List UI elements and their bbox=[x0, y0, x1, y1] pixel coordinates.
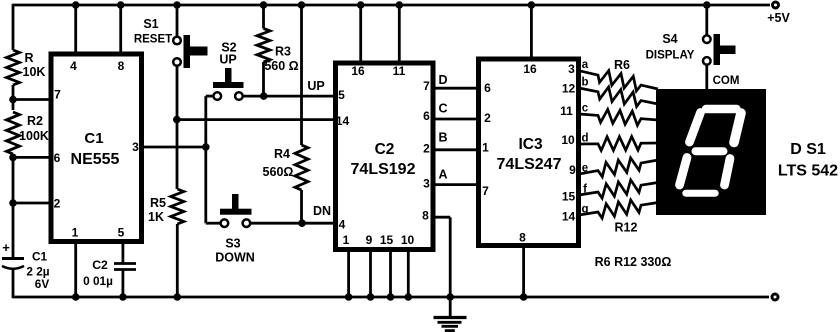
svg-text:DN: DN bbox=[313, 204, 331, 218]
resistor R10 segment e bbox=[579, 158, 658, 177]
node A label bbox=[438, 168, 447, 182]
node R5 ground junction bbox=[174, 293, 182, 301]
svg-text:1: 1 bbox=[343, 233, 350, 247]
node COM label bbox=[713, 75, 740, 87]
wire pole to S3 bbox=[206, 222, 221, 225]
capacitor C2 0.01u bbox=[83, 258, 136, 288]
resistor R 10K bbox=[7, 50, 46, 85]
svg-text:+: + bbox=[2, 240, 10, 255]
node R6-R12 value note bbox=[595, 255, 672, 269]
wire R5 to ground bbox=[176, 224, 179, 297]
svg-text:2: 2 bbox=[423, 142, 430, 156]
svg-text:15: 15 bbox=[562, 190, 576, 204]
node D label bbox=[438, 73, 447, 87]
node pin8 rail junction bbox=[117, 1, 125, 9]
node IC3 pin16 rail junction bbox=[528, 1, 536, 9]
display DS1 LTS542 seven-segment bbox=[656, 89, 766, 215]
svg-text:3: 3 bbox=[568, 62, 575, 76]
svg-text:10K: 10K bbox=[23, 65, 46, 79]
svg-text:D S1: D S1 bbox=[790, 141, 826, 158]
wire R to R2 bbox=[12, 85, 15, 110]
wire IC3 pin8 to ground bbox=[522, 245, 525, 297]
svg-text:1: 1 bbox=[72, 226, 79, 240]
node S1/R5/pin14 junction bbox=[173, 116, 181, 124]
wire data D bbox=[433, 87, 478, 90]
svg-text:C1: C1 bbox=[84, 130, 103, 147]
resistor R11 segment f bbox=[579, 180, 658, 198]
svg-text:10: 10 bbox=[401, 233, 415, 247]
node IC3 pin8 ground junction bbox=[520, 293, 528, 301]
svg-text:4: 4 bbox=[70, 59, 77, 73]
node C2 ground junction bbox=[119, 293, 127, 301]
wire R4 top lead bbox=[300, 4, 303, 145]
net DN label bbox=[313, 204, 331, 218]
node C2 pin1 ground junction bbox=[345, 293, 353, 301]
svg-text:11: 11 bbox=[393, 64, 406, 78]
IC U3 74LS247 decoder IC3 bbox=[479, 59, 579, 246]
svg-text:6: 6 bbox=[484, 81, 491, 95]
svg-text:COM: COM bbox=[713, 75, 740, 87]
node bottom-right terminal bbox=[772, 294, 778, 300]
svg-text:D: D bbox=[438, 73, 447, 87]
svg-text:560 Ω: 560 Ω bbox=[264, 59, 298, 73]
wire UP line bbox=[242, 95, 335, 98]
wire left vertical top lead bbox=[12, 4, 15, 50]
node main ground junction bbox=[446, 293, 454, 301]
node C label bbox=[438, 102, 447, 116]
resistor R3 560 bbox=[257, 29, 299, 74]
svg-text:1: 1 bbox=[482, 141, 489, 155]
node R4/DN junction bbox=[298, 219, 306, 227]
svg-text:R12: R12 bbox=[615, 221, 638, 235]
wire pin 1 to ground bbox=[74, 241, 77, 297]
wire C2 to ground bbox=[122, 270, 125, 298]
svg-text:15: 15 bbox=[380, 233, 394, 247]
resistor R7 segment b bbox=[579, 77, 658, 107]
svg-text:7: 7 bbox=[423, 79, 430, 93]
wire data C bbox=[433, 118, 478, 121]
capacitor C1 2.2u 6V bbox=[2, 240, 50, 291]
node C2 pin16 rail junction bbox=[357, 1, 365, 9]
svg-text:DISPLAY: DISPLAY bbox=[646, 50, 695, 62]
node B label bbox=[438, 131, 447, 145]
svg-text:2: 2 bbox=[484, 111, 491, 125]
node C2 pin11 rail junction bbox=[396, 1, 404, 9]
svg-text:S3: S3 bbox=[225, 237, 240, 251]
node pin6 junction bbox=[9, 154, 17, 162]
resistor R5 1K bbox=[148, 189, 184, 224]
wire S4 top lead bbox=[705, 4, 708, 36]
wire ground bottom rail bbox=[13, 296, 769, 299]
svg-text:14: 14 bbox=[562, 210, 576, 224]
switch S3 DOWN bbox=[215, 194, 255, 265]
wire C1 to bottom rail bbox=[12, 269, 15, 298]
svg-text:a: a bbox=[582, 59, 589, 71]
IC U2 74LS192 counter C2 bbox=[336, 63, 434, 250]
svg-text:c: c bbox=[582, 103, 589, 115]
resistor R8 segment c bbox=[579, 103, 658, 126]
wire pole vertical bbox=[204, 96, 207, 223]
resistor R4 560 bbox=[263, 145, 308, 190]
node S4 rail junction bbox=[703, 1, 711, 9]
svg-text:S4: S4 bbox=[662, 32, 677, 46]
wire pin 8 to rail bbox=[119, 5, 122, 54]
svg-text:7: 7 bbox=[482, 184, 489, 198]
wire COM lead bbox=[705, 65, 708, 91]
svg-text:+5V: +5V bbox=[767, 11, 790, 25]
svg-text:C1: C1 bbox=[32, 250, 48, 264]
wire DN line bbox=[250, 222, 336, 225]
svg-text:R4: R4 bbox=[274, 147, 290, 161]
node R12 label bbox=[615, 221, 638, 235]
svg-text:12: 12 bbox=[562, 82, 576, 96]
svg-text:74LS192: 74LS192 bbox=[351, 161, 416, 178]
wire R2 to C1 bbox=[12, 154, 15, 258]
node C2 pin15 ground junction bbox=[387, 293, 395, 301]
svg-text:9: 9 bbox=[569, 163, 576, 177]
resistor R12 segment g bbox=[579, 200, 658, 218]
svg-text:16: 16 bbox=[523, 62, 537, 76]
wire C2 pin16 to rail bbox=[359, 5, 362, 63]
net UP label bbox=[307, 79, 324, 93]
svg-text:14: 14 bbox=[336, 114, 350, 128]
svg-text:6: 6 bbox=[54, 151, 61, 165]
op-amp U1 NE555 timer C1 bbox=[51, 54, 142, 242]
svg-text:74LS247: 74LS247 bbox=[497, 156, 562, 173]
node pin3 pole junction bbox=[202, 143, 210, 151]
wire pin 2 lead bbox=[13, 202, 50, 205]
wire C2 pin8 to ground bbox=[433, 217, 450, 297]
wire C2 pin1 to ground bbox=[347, 249, 350, 297]
wire data B bbox=[433, 148, 478, 151]
node C2 pin9 ground junction bbox=[367, 293, 375, 301]
svg-text:7: 7 bbox=[54, 88, 61, 102]
wire C2 pin9 to ground bbox=[369, 249, 372, 297]
wire data A bbox=[433, 183, 478, 186]
svg-text:R2: R2 bbox=[27, 114, 43, 128]
svg-text:R3: R3 bbox=[275, 45, 291, 59]
node pin1 ground junction bbox=[72, 293, 80, 301]
wire IC3 pin16 to rail bbox=[530, 5, 533, 59]
wire pin 5 lead bbox=[122, 241, 125, 263]
svg-text:DOWN: DOWN bbox=[215, 251, 255, 265]
svg-text:A: A bbox=[438, 168, 447, 182]
svg-text:d: d bbox=[581, 133, 588, 145]
svg-text:C: C bbox=[438, 102, 447, 116]
svg-text:UP: UP bbox=[219, 53, 236, 67]
svg-text:8: 8 bbox=[118, 59, 125, 73]
svg-text:5: 5 bbox=[118, 226, 125, 240]
node R6 label bbox=[614, 58, 630, 72]
svg-text:560Ω: 560Ω bbox=[263, 165, 294, 179]
node DS1 label bbox=[778, 141, 838, 180]
switch S4 DISPLAY bbox=[646, 32, 736, 65]
wire C2 pin10 to ground bbox=[407, 249, 410, 297]
svg-text:LTS 542: LTS 542 bbox=[778, 163, 838, 180]
svg-text:B: B bbox=[438, 131, 447, 145]
svg-text:e: e bbox=[582, 163, 588, 175]
svg-text:R: R bbox=[24, 51, 33, 65]
switch S2 UP bbox=[213, 41, 244, 100]
svg-text:8: 8 bbox=[519, 231, 526, 245]
svg-text:10: 10 bbox=[561, 133, 575, 147]
svg-text:R6 R12 330Ω: R6 R12 330Ω bbox=[595, 255, 672, 269]
svg-text:C2: C2 bbox=[92, 258, 108, 272]
switch S1 RESET bbox=[134, 17, 208, 68]
resistor R9 segment d bbox=[579, 133, 658, 151]
svg-text:C2: C2 bbox=[375, 141, 395, 158]
svg-text:R6: R6 bbox=[614, 58, 630, 72]
wire pin 14 line bbox=[177, 118, 335, 121]
wire pin 6 lead bbox=[13, 156, 50, 159]
svg-text:16: 16 bbox=[351, 64, 365, 78]
svg-text:4: 4 bbox=[339, 218, 346, 232]
svg-text:3: 3 bbox=[423, 177, 430, 191]
node R3 rail junction bbox=[260, 1, 268, 9]
wire R4 bottom lead bbox=[300, 190, 303, 223]
svg-text:1K: 1K bbox=[148, 210, 164, 224]
svg-text:g: g bbox=[581, 204, 588, 216]
node S1 rail junction bbox=[173, 1, 181, 9]
resistor R2 100K bbox=[7, 112, 49, 154]
wire pole to S2 bbox=[206, 95, 214, 98]
wire C2 pin11 to rail bbox=[398, 5, 401, 63]
node C2 pin10 ground junction bbox=[405, 293, 413, 301]
svg-text:5: 5 bbox=[338, 88, 345, 102]
svg-text:9: 9 bbox=[366, 233, 373, 247]
node pin2 junction bbox=[9, 199, 17, 207]
svg-text:8: 8 bbox=[422, 209, 429, 223]
wire pin 3 output bbox=[141, 146, 206, 149]
svg-text:11: 11 bbox=[560, 104, 573, 118]
svg-text:UP: UP bbox=[307, 79, 324, 93]
node pin4 rail junction bbox=[72, 1, 80, 9]
svg-text:RESET: RESET bbox=[134, 34, 172, 46]
ground bbox=[434, 297, 467, 331]
svg-text:6: 6 bbox=[423, 109, 430, 123]
wire C2 pin15 to ground bbox=[389, 249, 392, 297]
svg-text:IC3: IC3 bbox=[518, 136, 543, 153]
node R4 rail junction bbox=[298, 1, 306, 9]
svg-text:S1: S1 bbox=[143, 17, 158, 31]
node pin7 junction bbox=[9, 96, 17, 104]
svg-text:2: 2 bbox=[54, 197, 61, 211]
wire pin 4 to rail bbox=[74, 5, 77, 54]
svg-text:R5: R5 bbox=[150, 196, 166, 210]
wire S1 top lead bbox=[176, 4, 179, 37]
resistor R6 segment a bbox=[579, 59, 658, 91]
wire node to R5 bbox=[176, 120, 179, 189]
node R3/UP junction bbox=[260, 92, 268, 100]
wire R3 top lead bbox=[262, 4, 265, 29]
wire +5V top rail bbox=[13, 4, 770, 7]
svg-text:0 01µ: 0 01µ bbox=[83, 274, 113, 288]
wire R3 bottom lead bbox=[262, 62, 265, 96]
svg-text:100K: 100K bbox=[19, 129, 49, 143]
wire pin 7 lead bbox=[13, 98, 50, 101]
svg-text:b: b bbox=[581, 77, 588, 89]
svg-text:6V: 6V bbox=[35, 277, 50, 291]
svg-text:3: 3 bbox=[132, 140, 139, 154]
wire S1 to node bbox=[176, 66, 179, 120]
svg-text:f: f bbox=[583, 184, 587, 196]
svg-text:NE555: NE555 bbox=[71, 151, 120, 168]
node +5V terminal bbox=[767, 2, 790, 25]
